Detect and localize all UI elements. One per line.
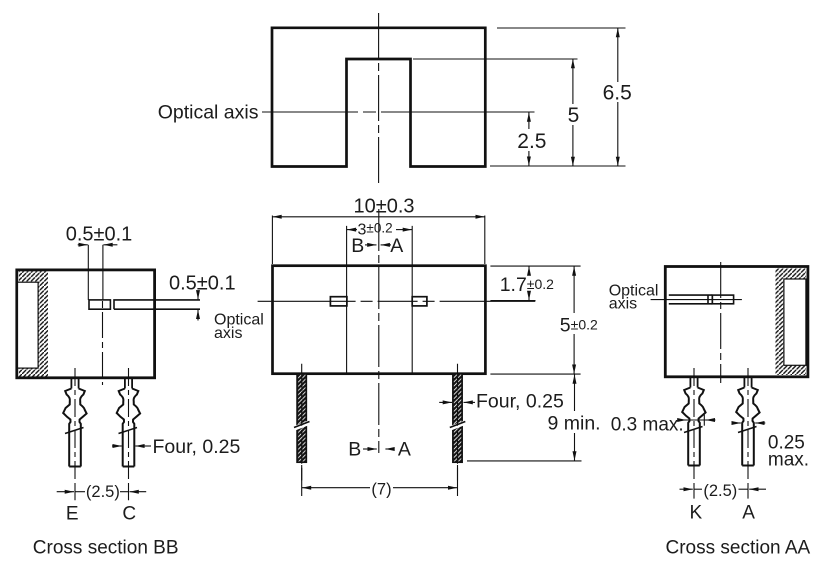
svg-text:A: A bbox=[398, 439, 411, 461]
svg-text:0.5±0.1: 0.5±0.1 bbox=[66, 223, 133, 245]
svg-text:10±0.3: 10±0.3 bbox=[353, 195, 414, 217]
svg-text:Optical axis: Optical axis bbox=[158, 102, 259, 124]
svg-text:Four, 0.25: Four, 0.25 bbox=[476, 391, 564, 413]
svg-text:A: A bbox=[390, 235, 403, 257]
svg-text:axis: axis bbox=[214, 325, 242, 342]
svg-text:9 min.: 9 min. bbox=[548, 412, 601, 434]
svg-text:(7): (7) bbox=[371, 480, 391, 498]
svg-text:Four, 0.25: Four, 0.25 bbox=[153, 436, 241, 458]
svg-text:6.5: 6.5 bbox=[603, 82, 632, 105]
svg-text:axis: axis bbox=[609, 296, 637, 313]
svg-text:0.5±0.1: 0.5±0.1 bbox=[169, 273, 236, 295]
svg-text:B: B bbox=[348, 439, 361, 461]
svg-text:(2.5): (2.5) bbox=[703, 482, 737, 500]
svg-text:0.3 max.: 0.3 max. bbox=[611, 415, 684, 436]
svg-text:C: C bbox=[122, 504, 136, 525]
svg-text:B: B bbox=[351, 235, 364, 257]
svg-text:A: A bbox=[742, 503, 755, 524]
svg-text:K: K bbox=[690, 503, 703, 524]
svg-text:(2.5): (2.5) bbox=[86, 483, 120, 501]
svg-text:5: 5 bbox=[568, 104, 580, 127]
svg-text:Cross section BB: Cross section BB bbox=[33, 538, 179, 559]
svg-text:2.5: 2.5 bbox=[517, 130, 546, 153]
svg-text:max.: max. bbox=[768, 450, 809, 471]
svg-text:Cross section AA: Cross section AA bbox=[666, 538, 811, 559]
svg-text:E: E bbox=[66, 504, 79, 525]
